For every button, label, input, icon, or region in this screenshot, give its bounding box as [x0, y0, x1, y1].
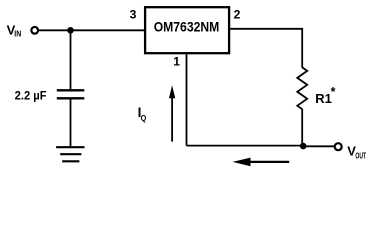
wire junction to capacitor: [70, 30, 72, 89]
regulator U1 OM7632NM box: [145, 7, 229, 53]
svg-text:OUT: OUT: [355, 152, 366, 161]
svg-text:Q: Q: [141, 113, 147, 123]
wire resistor to output node: [301, 109, 303, 146]
svg-text:2.2 µF: 2.2 µF: [15, 88, 47, 102]
wire pin 2 to resistor: [230, 29, 302, 68]
resistor R1: [297, 67, 307, 109]
svg-text:OM7632NM: OM7632NM: [154, 20, 220, 36]
wire VIN to pin 3: [39, 29, 145, 31]
wire bottom return: [187, 145, 304, 147]
node VIN label: [7, 22, 22, 38]
R1 value label: [315, 85, 335, 106]
svg-text:1: 1: [173, 54, 180, 68]
node VOUT label: [347, 143, 366, 160]
svg-text:3: 3: [130, 7, 137, 21]
svg-text:IN: IN: [14, 30, 21, 39]
output current arrow: [233, 158, 290, 167]
junction input node: [67, 27, 74, 34]
svg-text:R1: R1: [315, 91, 332, 106]
terminal VOUT: [335, 143, 342, 150]
svg-text:2: 2: [234, 7, 241, 21]
wire output node to VOUT terminal: [303, 145, 334, 147]
ground: [56, 147, 84, 161]
wire pin 1 down: [186, 54, 188, 145]
junction output node: [300, 143, 307, 150]
IQ label: [138, 105, 147, 123]
IQ current arrow: [169, 85, 175, 141]
capacitor C1 plates: [57, 90, 85, 98]
terminal VIN: [31, 27, 38, 34]
wire capacitor to ground: [70, 99, 72, 147]
svg-text:*: *: [331, 85, 336, 99]
